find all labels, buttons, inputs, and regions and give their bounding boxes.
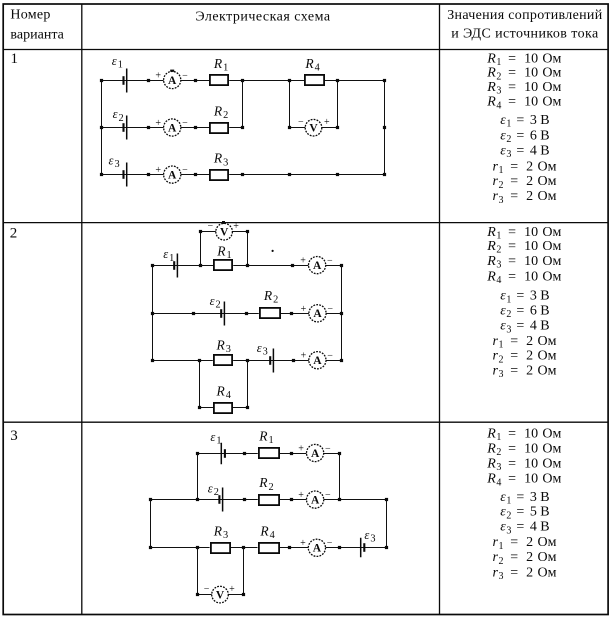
wire c1 branch 2 horizontal <box>101 127 242 129</box>
svg-text:A: A <box>168 170 177 182</box>
svg-text:ε3: ε3 <box>109 154 120 171</box>
svg-text:R4: R4 <box>304 56 319 74</box>
svg-text:A: A <box>313 260 322 272</box>
svg-text:+: + <box>155 165 161 176</box>
label R1 (circuit 1) <box>213 56 228 74</box>
junction c3 b2 n1 <box>243 498 246 501</box>
svg-text:+: + <box>324 117 330 128</box>
svg-text:ε1: ε1 <box>163 247 174 264</box>
label R1 (circuit 3) <box>258 428 273 446</box>
svg-text:Значения сопротивлений: Значения сопротивлений <box>447 8 603 23</box>
svg-text:R4: R4 <box>259 524 274 542</box>
svg-text:+: + <box>155 118 161 129</box>
junction V right <box>336 126 339 129</box>
wire c3 branch 3 <box>150 547 387 549</box>
label R4 (circuit 3) <box>259 524 274 542</box>
wire c2 R4 left leg <box>199 360 201 408</box>
tick above ammeter A1 <box>170 70 174 72</box>
svg-text:ε1: ε1 <box>112 54 123 71</box>
battery &#949;1 (circuit 2) (EMF source) <box>174 254 177 278</box>
svg-text:R2: R2 <box>213 104 228 122</box>
svg-text:ε2: ε2 <box>210 294 221 311</box>
junction c1 bottom node c <box>336 173 339 176</box>
label R4 (circuit 1) <box>304 56 319 74</box>
svg-text:−: − <box>327 351 333 362</box>
ammeter A3 (circuit 2) <box>301 351 334 369</box>
junction c3 b2 n0 <box>196 498 199 501</box>
label &#949;3 (circuit 2) <box>257 341 268 358</box>
svg-text:+: + <box>155 71 161 82</box>
svg-text:+: + <box>229 584 235 595</box>
svg-text:−: − <box>298 117 304 128</box>
svg-text:R3: R3 <box>213 151 228 169</box>
junction after ammeter <box>194 79 197 82</box>
svg-text:R3: R3 <box>216 338 231 356</box>
junction c2 b2 n0 <box>192 312 195 315</box>
label &#949;3 (circuit 1) <box>109 154 120 171</box>
battery &#949;1 (circuit 3) (EMF source) <box>221 443 225 465</box>
junction c2 right bottom <box>340 359 343 362</box>
circuit 1 <box>100 54 386 187</box>
junction after battery <box>147 79 150 82</box>
resistor R2 (circuit 3) <box>258 494 280 506</box>
label R2 (circuit 3) <box>258 475 273 493</box>
svg-text:+: + <box>300 538 306 549</box>
svg-text:ε1: ε1 <box>210 430 221 447</box>
svg-text:−: − <box>182 71 188 82</box>
junction after battery <box>147 173 150 176</box>
svg-text:ε2: ε2 <box>113 107 124 124</box>
wire c2 R4 branch <box>200 407 247 409</box>
junction c2 b1 n1 <box>291 264 294 267</box>
label &#949;2 (circuit 2) <box>210 294 221 311</box>
svg-text:A: A <box>168 75 177 87</box>
svg-text:r3=2Ом: r3=2Ом <box>493 363 557 380</box>
svg-text:R4=10Ом: R4=10Ом <box>486 269 561 286</box>
svg-text:+: + <box>298 443 304 454</box>
junction c3 b3 right <box>385 546 388 549</box>
junction node after R1 <box>241 79 244 82</box>
svg-text:−: − <box>182 165 188 176</box>
resistor R3 (circuit 1) <box>209 169 229 181</box>
label R3 (circuit 2) <box>216 338 231 356</box>
junction c1 left bus node <box>100 173 103 176</box>
resistor R1 (circuit 3) <box>258 447 280 459</box>
battery &#949;2 (circuit 1) (EMF source) <box>124 116 127 140</box>
junction c1 bottom node a <box>241 173 244 176</box>
junction after ammeter <box>194 126 197 129</box>
circuit 2 <box>151 221 343 414</box>
svg-text:ε3=4В: ε3=4В <box>500 520 549 537</box>
junction c3 b3 left <box>149 546 152 549</box>
resistor R4 (circuit 1) <box>304 74 325 86</box>
junction c1 bottom node b <box>288 173 291 176</box>
junction c3 b2 corner <box>385 498 388 501</box>
junction c2 b3 n0 <box>198 359 201 362</box>
svg-text:+: + <box>301 351 307 362</box>
svg-text:R4=10Ом: R4=10Ом <box>486 472 561 489</box>
junction c1 right mid <box>383 126 386 129</box>
svg-text:−: − <box>327 538 333 549</box>
label R1 (circuit 2) <box>216 243 231 261</box>
junction c2 left bottom <box>151 359 154 362</box>
wire c1 branch 3 horizontal <box>101 174 384 176</box>
resistor R4 (circuit 2) <box>213 402 233 414</box>
svg-text:A: A <box>313 543 322 555</box>
junction c2 left mid <box>151 312 154 315</box>
junction c1 right bottom <box>383 173 386 176</box>
junction c2 b3 n1 <box>246 359 249 362</box>
svg-text:ε3: ε3 <box>257 341 268 358</box>
svg-text:R1: R1 <box>213 56 228 74</box>
wire c2 left vertical bus <box>152 265 154 360</box>
svg-text:−: − <box>207 221 213 232</box>
ammeter A3 (circuit 1) <box>155 165 188 183</box>
junction c2 R4 br <box>246 406 249 409</box>
junction c2 b2 n2 <box>290 312 293 315</box>
svg-text:V: V <box>309 123 318 135</box>
svg-text:и ЭДС источников тока: и ЭДС источников тока <box>451 26 599 41</box>
wire c2 voltmeter top branch <box>200 231 248 233</box>
resistor R3 (circuit 2) <box>213 354 233 366</box>
wire c1 R4 right leg <box>337 80 339 128</box>
svg-text:R2: R2 <box>258 475 273 493</box>
wire c3 branch 2 <box>150 499 387 501</box>
svg-text:R4: R4 <box>216 384 231 402</box>
svg-text:r2=2Ом: r2=2Ом <box>493 550 557 567</box>
label &#949;1 (circuit 1) <box>112 54 123 71</box>
wire c3 V right leg <box>243 548 245 595</box>
junction c3 b1 n1 <box>243 452 246 455</box>
battery &#949;1 (circuit 1) (EMF source) <box>124 69 127 93</box>
label R3 (circuit 1) <box>213 151 228 169</box>
battery &#949;2 (circuit 2) (EMF source) <box>221 302 224 326</box>
junction c2 R4 bl <box>198 406 201 409</box>
resistor R2 (circuit 2) <box>259 307 281 319</box>
label &#949;3 (circuit 3) <box>364 528 375 545</box>
ammeter A2 (circuit 1) <box>155 118 188 136</box>
stray dot <box>272 250 274 252</box>
svg-text:R1: R1 <box>216 243 231 261</box>
junction c2 V br <box>246 264 249 267</box>
junction c3 b1 n2 <box>290 452 293 455</box>
svg-text:V: V <box>220 227 229 239</box>
svg-text:ε3: ε3 <box>364 528 375 545</box>
wire c2 branch 3 <box>153 360 342 362</box>
svg-text:варианта: варианта <box>10 28 64 43</box>
svg-text:R4=10Ом: R4=10Ом <box>486 95 561 112</box>
svg-text:+: + <box>300 256 306 267</box>
wire c1 vertical R1-R2 tie <box>242 80 244 128</box>
junction V left <box>288 126 291 129</box>
svg-text:R3=10Ом: R3=10Ом <box>486 254 561 271</box>
svg-text:ε1=3В: ε1=3В <box>500 113 549 130</box>
svg-text:−: − <box>325 443 331 454</box>
wire c3 b1-b2 tie left <box>197 453 199 500</box>
svg-text:ε2: ε2 <box>208 481 219 498</box>
resistor R3 (circuit 3) <box>210 542 231 554</box>
wire c2 right vertical bus <box>341 265 343 360</box>
resistor R4 (circuit 3) <box>258 542 280 554</box>
svg-text:+: + <box>233 221 239 232</box>
junction c1 right top <box>383 79 386 82</box>
svg-text:−: − <box>204 584 210 595</box>
svg-text:−: − <box>182 118 188 129</box>
resistor R2 (circuit 1) <box>209 122 229 134</box>
junction c3 V bl <box>196 593 199 596</box>
label R2 (circuit 2) <box>263 288 278 306</box>
svg-text:2: 2 <box>10 226 17 242</box>
junction c2 V tr <box>246 230 249 233</box>
junction c2 V tl <box>199 230 202 233</box>
circuit 3 <box>149 428 388 602</box>
wire c1 left vertical bus <box>101 80 103 175</box>
label R4 (circuit 2) <box>216 384 231 402</box>
junction c3 b3 n2 <box>288 546 291 549</box>
junction c3 b2 left <box>149 498 152 501</box>
junction after battery <box>147 126 150 129</box>
svg-text:ε3=4В: ε3=4В <box>500 319 549 336</box>
junction c3 b3 n0 <box>196 546 199 549</box>
junction c3 b1 left <box>196 452 199 455</box>
junction c3 b2 n2 <box>290 498 293 501</box>
wire c2 R4 right leg <box>247 360 249 408</box>
svg-text:r3=2Ом: r3=2Ом <box>493 565 557 582</box>
battery &#949;3 (circuit 2) (EMF source) <box>270 349 273 373</box>
svg-text:−: − <box>327 304 333 315</box>
junction c1 left bus node <box>100 126 103 129</box>
svg-text:−: − <box>325 490 331 501</box>
label &#949;2 (circuit 1) <box>113 107 124 124</box>
wire c3 left bus <box>150 500 152 548</box>
svg-text:A: A <box>311 495 320 507</box>
junction R4 top-left <box>288 79 291 82</box>
wire c3 right bus <box>386 500 388 548</box>
junction c2 b1 corner <box>340 264 343 267</box>
svg-text:3: 3 <box>10 428 18 444</box>
wire c3 branch 1 <box>197 453 339 455</box>
junction node after R2 <box>241 126 244 129</box>
wire c2 V left leg <box>200 232 202 265</box>
battery &#949;3 (circuit 3) (EMF source) <box>361 538 365 558</box>
battery &#949;2 (circuit 3) (EMF source) <box>219 488 222 512</box>
wire c3 V branch <box>197 594 243 596</box>
voltmeter V (circuit 1) <box>298 117 330 136</box>
voltmeter V (circuit 3) <box>204 584 235 603</box>
svg-text:R1: R1 <box>258 428 273 446</box>
junction c2 right mid <box>340 312 343 315</box>
junction c3 b1 corner <box>338 452 341 455</box>
svg-text:r3=2Ом: r3=2Ом <box>493 189 557 206</box>
junction c2 b2 n1 <box>245 312 248 315</box>
wire c2 V right leg <box>247 232 249 265</box>
svg-text:+: + <box>301 304 307 315</box>
svg-text:A: A <box>168 122 177 134</box>
junction c3 b3 n3 <box>338 546 341 549</box>
ammeter A1 (circuit 3) <box>298 443 331 461</box>
wire c1 R4 left leg <box>289 80 291 128</box>
svg-text:Электрическая схема: Электрическая схема <box>195 10 330 25</box>
ammeter A3 (circuit 3) <box>300 538 333 556</box>
resistor R1 (circuit 1) <box>209 74 229 86</box>
wire c1 voltmeter branch <box>290 127 337 129</box>
svg-text:1: 1 <box>11 51 19 67</box>
junction c2 V bl <box>199 264 202 267</box>
junction c2 left top <box>151 264 154 267</box>
junction c3 b3 n1 <box>242 546 245 549</box>
ammeter A1 (circuit 2) <box>300 256 333 274</box>
wire c1 right vertical bus <box>384 80 386 175</box>
svg-text:A: A <box>313 355 322 367</box>
voltmeter V (circuit 2) <box>207 221 239 240</box>
svg-text:A: A <box>313 308 322 320</box>
wire c2 branch 1 <box>153 265 342 267</box>
junction c3 b2 n3 <box>338 498 341 501</box>
label &#949;2 (circuit 3) <box>208 481 219 498</box>
svg-text:V: V <box>216 590 225 602</box>
junction c3 V br <box>242 593 245 596</box>
svg-text:A: A <box>311 448 320 460</box>
ammeter A2 (circuit 3) <box>298 490 331 508</box>
junction after ammeter <box>194 173 197 176</box>
svg-text:+: + <box>298 490 304 501</box>
wire c2 branch 2 <box>153 313 342 315</box>
junction R4 top-right <box>336 79 339 82</box>
resistor R1 (circuit 2) <box>213 259 233 271</box>
label &#949;1 (circuit 3) <box>210 430 221 447</box>
svg-text:Номер: Номер <box>10 8 50 23</box>
junction c2 b3 n2 <box>292 359 295 362</box>
svg-text:R3: R3 <box>213 524 228 542</box>
label R3 (circuit 3) <box>213 524 228 542</box>
wire c3 V left leg <box>197 548 199 595</box>
wire c3 b1-b2 tie right <box>339 453 341 500</box>
svg-text:R2: R2 <box>263 288 278 306</box>
svg-text:R3=10Ом: R3=10Ом <box>486 456 561 473</box>
ammeter A1 (circuit 1) <box>155 71 188 89</box>
battery &#949;3 (circuit 1) (EMF source) <box>124 163 127 187</box>
junction c1 left bus node <box>100 79 103 82</box>
label R2 (circuit 1) <box>213 104 228 122</box>
svg-text:ε3=4В: ε3=4В <box>500 143 549 160</box>
svg-text:−: − <box>327 256 333 267</box>
label &#949;1 (circuit 2) <box>163 247 174 264</box>
ammeter A2 (circuit 2) <box>301 304 334 322</box>
tick on border above voltmeter <box>222 221 225 224</box>
wire c1 branch 1 horizontal <box>101 80 384 82</box>
